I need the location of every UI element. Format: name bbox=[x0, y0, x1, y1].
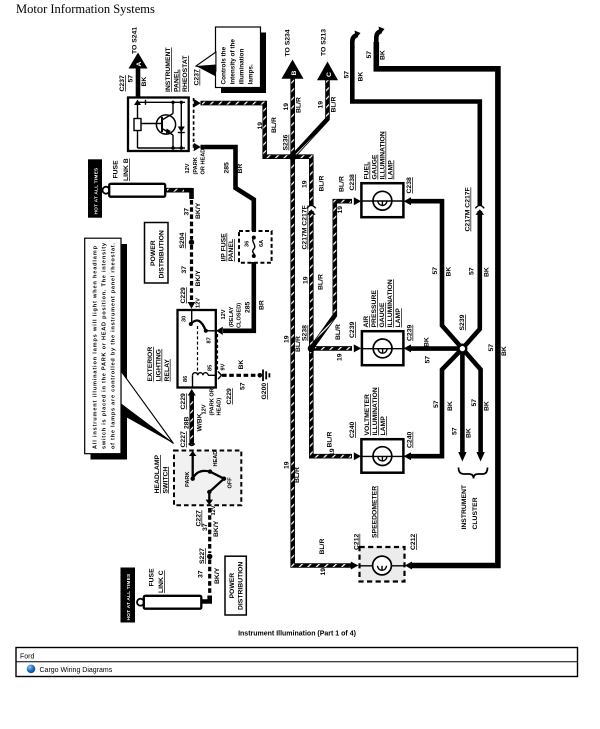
svg-text:intensity of the: intensity of the bbox=[230, 39, 237, 85]
label I/P FUSE PANEL bbox=[221, 233, 236, 262]
svg-text:37: 37 bbox=[181, 266, 188, 274]
svg-text:DISTRIBUTION: DISTRIBUTION bbox=[238, 562, 245, 610]
svg-text:19: 19 bbox=[257, 122, 264, 130]
label VOLTMETER ILLUMINATION LAMP bbox=[364, 387, 387, 435]
callout: controls the intensity bbox=[196, 27, 266, 93]
callout: all instrument illumination lamps bbox=[85, 238, 174, 459]
svg-text:C239: C239 bbox=[407, 325, 414, 341]
svg-text:57: 57 bbox=[433, 400, 440, 408]
wire 57 BK (hook to speedometer, instrument cluster feed) bbox=[366, 27, 508, 570]
svg-text:C238: C238 bbox=[349, 174, 356, 190]
wire 57 BK (hook to C217 connector to S239) bbox=[344, 31, 480, 207]
svg-text:BK: BK bbox=[238, 360, 245, 370]
power distribution box (lower) bbox=[225, 556, 246, 615]
svg-text:12V: 12V bbox=[221, 309, 227, 319]
svg-text:BL/R: BL/R bbox=[327, 432, 334, 448]
label 12V (RELAY CLOSED) bbox=[221, 303, 243, 328]
svg-text:CLUSTER: CLUSTER bbox=[472, 497, 479, 529]
svg-text:TO S234: TO S234 bbox=[285, 29, 292, 56]
svg-text:VOLTMETER: VOLTMETER bbox=[364, 394, 371, 435]
label INSTRUMENT PANEL RHEOSTAT bbox=[165, 47, 189, 92]
voltmeter illumination lamp bbox=[361, 439, 403, 473]
svg-text:57: 57 bbox=[432, 267, 439, 275]
wire 57 BK (relay pin 85 to G200) bbox=[218, 360, 258, 405]
svg-text:19: 19 bbox=[329, 448, 336, 456]
connector C217M C217F (on BL/R wire) bbox=[302, 205, 316, 249]
svg-text:C212: C212 bbox=[410, 534, 417, 550]
splice S236 bbox=[283, 134, 297, 160]
svg-text:19: 19 bbox=[337, 353, 344, 361]
svg-text:BK: BK bbox=[380, 50, 387, 60]
wire 57 BK (C217 connector down to S239) bbox=[462, 211, 490, 349]
svg-text:BL/R: BL/R bbox=[335, 324, 342, 340]
svg-text:FUSE: FUSE bbox=[149, 568, 156, 587]
svg-text:6A: 6A bbox=[259, 240, 265, 247]
wire 28B W/BK (relay to headlamp switch) bbox=[180, 388, 223, 447]
wire 37 BK/Y (S204 to relay) bbox=[181, 245, 202, 301]
diode D1 inside rheostat bbox=[178, 127, 185, 133]
footer globe icon bbox=[27, 665, 113, 674]
label AIR PRESSURE GAUGE ILLUMINATION LAMP bbox=[363, 279, 402, 327]
svg-text:W/BK: W/BK bbox=[197, 413, 204, 431]
svg-text:PRESSURE: PRESSURE bbox=[371, 290, 378, 328]
svg-text:S238: S238 bbox=[302, 325, 309, 341]
svg-text:BK: BK bbox=[484, 401, 491, 411]
svg-text:BK: BK bbox=[484, 267, 491, 277]
svg-text:C237: C237 bbox=[119, 75, 126, 91]
svg-text:GAUGE: GAUGE bbox=[372, 154, 379, 179]
svg-text:C217M C217F: C217M C217F bbox=[465, 187, 472, 231]
svg-text:57: 57 bbox=[344, 71, 351, 79]
wire 19 BL/R (S238 down to voltmeter lamp) bbox=[311, 348, 361, 460]
svg-text:CLOSED): CLOSED) bbox=[237, 303, 243, 328]
svg-text:GAUGE: GAUGE bbox=[379, 302, 386, 327]
splice S204 bbox=[179, 232, 194, 248]
svg-text:C227: C227 bbox=[180, 431, 187, 447]
instrument cluster bracket bbox=[459, 468, 488, 479]
svg-text:19: 19 bbox=[283, 103, 290, 111]
label C229 (relay top) bbox=[180, 287, 202, 308]
svg-text:36: 36 bbox=[245, 241, 251, 247]
svg-text:OFF: OFF bbox=[228, 477, 234, 489]
svg-text:BK: BK bbox=[358, 72, 365, 82]
wire 37 BK/Y (fuse link B to S204) bbox=[184, 200, 203, 240]
exterior lighting relay K1 bbox=[178, 310, 216, 388]
footer panel bbox=[16, 648, 578, 677]
label EXTERIOR LIGHTING RELAY bbox=[147, 347, 171, 382]
splice S238 dot (top) bbox=[308, 345, 315, 352]
svg-text:BL/R: BL/R bbox=[339, 176, 346, 192]
svg-text:BK: BK bbox=[466, 428, 473, 438]
connector arrow A (TO S241) bbox=[129, 53, 148, 69]
svg-text:BR: BR bbox=[259, 300, 266, 310]
fuel gauge illumination lamp bbox=[361, 183, 403, 217]
wire 19 BL/R (C217 connector to S238) bbox=[303, 211, 325, 348]
svg-text:BK/Y: BK/Y bbox=[214, 567, 221, 584]
wire 19 BL/R (S236 right to C217 connector) bbox=[293, 157, 326, 207]
svg-text:LINK B: LINK B bbox=[123, 158, 130, 181]
headlamp switch SW1 bbox=[174, 451, 241, 506]
wire 57 BK (S239 down arrow 1) bbox=[452, 349, 473, 462]
svg-text:SPEEDOMETER: SPEEDOMETER bbox=[372, 486, 379, 538]
svg-text:(RELAY: (RELAY bbox=[229, 306, 235, 327]
power distribution box (upper) bbox=[145, 223, 169, 284]
wire 57 BK (voltmeter lamp to S239) bbox=[404, 349, 463, 461]
svg-text:C: C bbox=[326, 72, 333, 77]
svg-text:S204: S204 bbox=[179, 232, 186, 248]
wire 19 BL/R (S236 up to connector B) bbox=[283, 77, 303, 157]
svg-text:ILLUMINATION: ILLUMINATION bbox=[380, 131, 387, 179]
svg-text:BK/Y: BK/Y bbox=[195, 202, 202, 219]
svg-text:BL/R: BL/R bbox=[294, 467, 301, 483]
svg-text:LAMP: LAMP bbox=[395, 308, 402, 328]
wire 285 BR (fuse panel to relay pin 87) bbox=[216, 262, 266, 335]
ground G200 bbox=[258, 370, 270, 400]
svg-text:12V: 12V bbox=[185, 163, 191, 173]
hot at all times tag (fuse link B) bbox=[88, 159, 102, 217]
svg-text:All instrument illumination la: All instrument illumination lamps will l… bbox=[93, 245, 99, 449]
svg-text:EXTERIOR: EXTERIOR bbox=[147, 347, 154, 382]
svg-text:C229: C229 bbox=[226, 388, 233, 404]
svg-text:B: B bbox=[291, 71, 298, 76]
svg-text:37: 37 bbox=[198, 570, 205, 578]
svg-text:LAMP: LAMP bbox=[380, 416, 387, 436]
svg-text:Controls the: Controls the bbox=[221, 46, 228, 84]
svg-text:POWER: POWER bbox=[150, 240, 157, 266]
connector arrow C229 into relay top bbox=[188, 302, 196, 309]
svg-text:ILLUMINATION: ILLUMINATION bbox=[372, 387, 379, 435]
svg-text:INSTRUMENT: INSTRUMENT bbox=[165, 47, 172, 92]
svg-text:LIGHTING: LIGHTING bbox=[156, 349, 163, 381]
svg-text:I/P FUSE: I/P FUSE bbox=[221, 233, 228, 262]
svg-text:S239: S239 bbox=[459, 314, 466, 330]
svg-text:A: A bbox=[136, 62, 143, 67]
svg-text:BK: BK bbox=[141, 77, 148, 87]
svg-text:HOT AT ALL TIMES: HOT AT ALL TIMES bbox=[126, 573, 132, 621]
svg-text:Motor Information Systems: Motor Information Systems bbox=[16, 2, 155, 16]
svg-text:C240: C240 bbox=[349, 422, 356, 438]
connector pin arrow (rheostat to BR wire) bbox=[194, 143, 201, 151]
svg-text:BR: BR bbox=[237, 164, 244, 174]
svg-text:57: 57 bbox=[425, 356, 432, 364]
svg-text:C237: C237 bbox=[194, 69, 201, 85]
svg-text:57: 57 bbox=[240, 382, 247, 390]
svg-text:BK: BK bbox=[501, 346, 508, 356]
svg-text:12V: 12V bbox=[202, 404, 208, 414]
svg-text:BL/R: BL/R bbox=[318, 274, 325, 290]
wire from fuse link B bbox=[165, 188, 191, 199]
svg-text:lamps.: lamps. bbox=[248, 64, 255, 84]
connector pin arrow (rheostat to BL/R wire) bbox=[194, 99, 201, 107]
svg-text:illumination: illumination bbox=[239, 49, 246, 85]
svg-text:Ford: Ford bbox=[20, 654, 35, 661]
svg-text:37: 37 bbox=[202, 523, 209, 531]
svg-text:BL/R: BL/R bbox=[271, 117, 278, 133]
splice S236 dot (top) bbox=[289, 153, 297, 161]
wire 19 BL/R (S236 up to connector C) bbox=[293, 78, 338, 157]
svg-text:C229: C229 bbox=[180, 393, 187, 409]
svg-text:19: 19 bbox=[303, 276, 310, 284]
svg-text:(PARK: (PARK bbox=[193, 157, 199, 174]
svg-text:19: 19 bbox=[284, 461, 291, 469]
svg-text:BL/R: BL/R bbox=[319, 176, 326, 192]
svg-text:57: 57 bbox=[366, 51, 373, 59]
svg-text:12V: 12V bbox=[196, 298, 202, 308]
svg-text:57: 57 bbox=[471, 399, 478, 407]
svg-text:Cargo Wiring Diagrams: Cargo Wiring Diagrams bbox=[40, 667, 113, 674]
wire 57 BK (air pressure lamp to S239) bbox=[404, 337, 463, 363]
svg-text:PANEL: PANEL bbox=[228, 239, 235, 262]
wire 37 BK/Y (S227 to fuse link C) bbox=[198, 560, 222, 602]
wire 57 BK (S239 down arrow 2) bbox=[462, 349, 490, 462]
svg-text:285: 285 bbox=[245, 301, 252, 313]
svg-text:OR HEAD): OR HEAD) bbox=[201, 147, 207, 175]
wire 19 BL/R (S236 down to speedometer) bbox=[284, 157, 359, 576]
wire 19 BL/R (S238 up to fuel gauge lamp) bbox=[311, 176, 361, 348]
svg-text:85: 85 bbox=[208, 365, 214, 371]
svg-text:BL/R: BL/R bbox=[319, 539, 326, 555]
label HEADLAMP SWITCH bbox=[154, 455, 169, 494]
wire 57 BK (fuel lamp to S239) bbox=[404, 197, 463, 348]
instrument panel rheostat U1 bbox=[128, 98, 189, 152]
connector arrow C (TO S213) bbox=[317, 62, 338, 81]
svg-text:AIR: AIR bbox=[363, 316, 370, 328]
svg-text:BK: BK bbox=[424, 337, 431, 347]
connector C217M C217F (on BK wire) bbox=[465, 187, 485, 231]
svg-text:87: 87 bbox=[207, 337, 213, 343]
svg-text:9V: 9V bbox=[221, 363, 227, 370]
svg-text:HEAD: HEAD bbox=[213, 451, 219, 467]
svg-text:DISTRIBUTION: DISTRIBUTION bbox=[159, 230, 166, 278]
svg-text:285: 285 bbox=[224, 162, 231, 174]
label C227 12V below switch bbox=[196, 505, 218, 526]
svg-text:PARK: PARK bbox=[185, 472, 191, 487]
label 12V (PARK OR HEAD) at rheostat output bbox=[185, 147, 207, 175]
speedometer bbox=[360, 547, 405, 582]
svg-text:of the lamps are controlled by: of the lamps are controlled by the instr… bbox=[111, 243, 117, 449]
splice S239 bbox=[459, 314, 467, 352]
relay right connector face dashed bbox=[216, 334, 218, 372]
svg-text:POWER: POWER bbox=[229, 573, 236, 599]
svg-text:BK/Y: BK/Y bbox=[213, 520, 220, 537]
svg-text:57: 57 bbox=[469, 267, 476, 275]
svg-text:BK/Y: BK/Y bbox=[195, 270, 202, 287]
svg-text:TO S213: TO S213 bbox=[321, 29, 328, 56]
svg-text:HOT AT ALL TIMES: HOT AT ALL TIMES bbox=[94, 167, 100, 215]
svg-text:19: 19 bbox=[302, 180, 309, 188]
svg-text:37: 37 bbox=[184, 208, 191, 216]
svg-text:28B: 28B bbox=[184, 416, 191, 429]
connector face C237 dashed line bbox=[193, 98, 195, 151]
svg-text:(PARK OR: (PARK OR bbox=[210, 388, 216, 415]
svg-text:C238: C238 bbox=[406, 177, 413, 193]
svg-text:SWITCH: SWITCH bbox=[162, 467, 169, 494]
svg-text:HEADLAMP: HEADLAMP bbox=[154, 455, 161, 494]
svg-text:30: 30 bbox=[182, 316, 188, 322]
wire 57 BK to connector A bbox=[128, 66, 149, 97]
svg-text:C217M C217F: C217M C217F bbox=[302, 205, 309, 249]
svg-text:57: 57 bbox=[452, 427, 459, 435]
wire 19 BL/R (S238 to air pressure lamp) bbox=[311, 324, 361, 361]
svg-text:FUSE: FUSE bbox=[113, 160, 120, 179]
svg-text:S236: S236 bbox=[283, 134, 290, 150]
svg-text:C239: C239 bbox=[349, 322, 356, 338]
svg-text:TO S241: TO S241 bbox=[132, 27, 139, 54]
splice S227 bbox=[199, 548, 212, 564]
svg-text:BL/R: BL/R bbox=[331, 97, 338, 113]
air pressure gauge illumination lamp bbox=[362, 331, 404, 365]
label INSTRUMENT CLUSTER bbox=[461, 484, 479, 529]
svg-text:S227: S227 bbox=[199, 548, 206, 564]
wire 285 BR (rheostat to I/P fuse panel) bbox=[201, 147, 254, 232]
label FUSE LINK C bbox=[149, 568, 166, 593]
svg-text:57: 57 bbox=[488, 344, 495, 352]
svg-text:switch is placed in the PARK o: switch is placed in the PARK or HEAD pos… bbox=[102, 242, 108, 449]
svg-text:19: 19 bbox=[320, 568, 327, 576]
fuse link C bbox=[137, 596, 201, 609]
svg-text:RHEOSTAT: RHEOSTAT bbox=[182, 55, 189, 92]
svg-text:INSTRUMENT: INSTRUMENT bbox=[461, 484, 468, 529]
svg-text:57: 57 bbox=[128, 75, 135, 83]
svg-text:12V: 12V bbox=[211, 505, 217, 515]
svg-text:PANEL: PANEL bbox=[174, 69, 181, 92]
label FUEL GAUGE ILLUMINATION LAMP bbox=[364, 131, 395, 179]
svg-text:G200: G200 bbox=[261, 383, 268, 400]
svg-text:HEAD): HEAD) bbox=[217, 398, 223, 416]
svg-text:ILLUMINATION: ILLUMINATION bbox=[387, 279, 394, 327]
svg-text:19: 19 bbox=[318, 101, 325, 109]
label FUSE LINK B bbox=[113, 158, 131, 181]
svg-text:FUEL: FUEL bbox=[364, 162, 371, 180]
wire 37 BK/Y (switch to S227) bbox=[202, 508, 220, 553]
svg-text:C240: C240 bbox=[407, 432, 414, 448]
transistor Q1 inside rheostat bbox=[141, 102, 176, 148]
svg-text:LINK C: LINK C bbox=[158, 570, 165, 593]
svg-text:Instrument Illumination (Part: Instrument Illumination (Part 1 of 4) bbox=[238, 631, 356, 638]
splice S238 bbox=[302, 325, 315, 352]
svg-text:BL/R: BL/R bbox=[296, 97, 303, 113]
wire 19 BL/R (rheostat to S236) bbox=[201, 103, 291, 157]
svg-text:19: 19 bbox=[337, 206, 344, 214]
svg-text:C229: C229 bbox=[180, 287, 187, 303]
svg-text:BK: BK bbox=[446, 267, 453, 277]
svg-text:86: 86 bbox=[183, 376, 189, 382]
hot at all times tag (fuse link C) bbox=[121, 568, 136, 623]
svg-text:BK: BK bbox=[447, 401, 454, 411]
svg-text:LAMP: LAMP bbox=[388, 160, 395, 180]
svg-text:RELAY: RELAY bbox=[164, 359, 171, 382]
I/P fuse panel bbox=[239, 231, 272, 263]
svg-text:19: 19 bbox=[284, 335, 291, 343]
fuse link B bbox=[103, 184, 166, 197]
connector arrow C229 relay bottom bbox=[188, 389, 196, 396]
connector arrow B (TO S234) bbox=[282, 60, 304, 79]
